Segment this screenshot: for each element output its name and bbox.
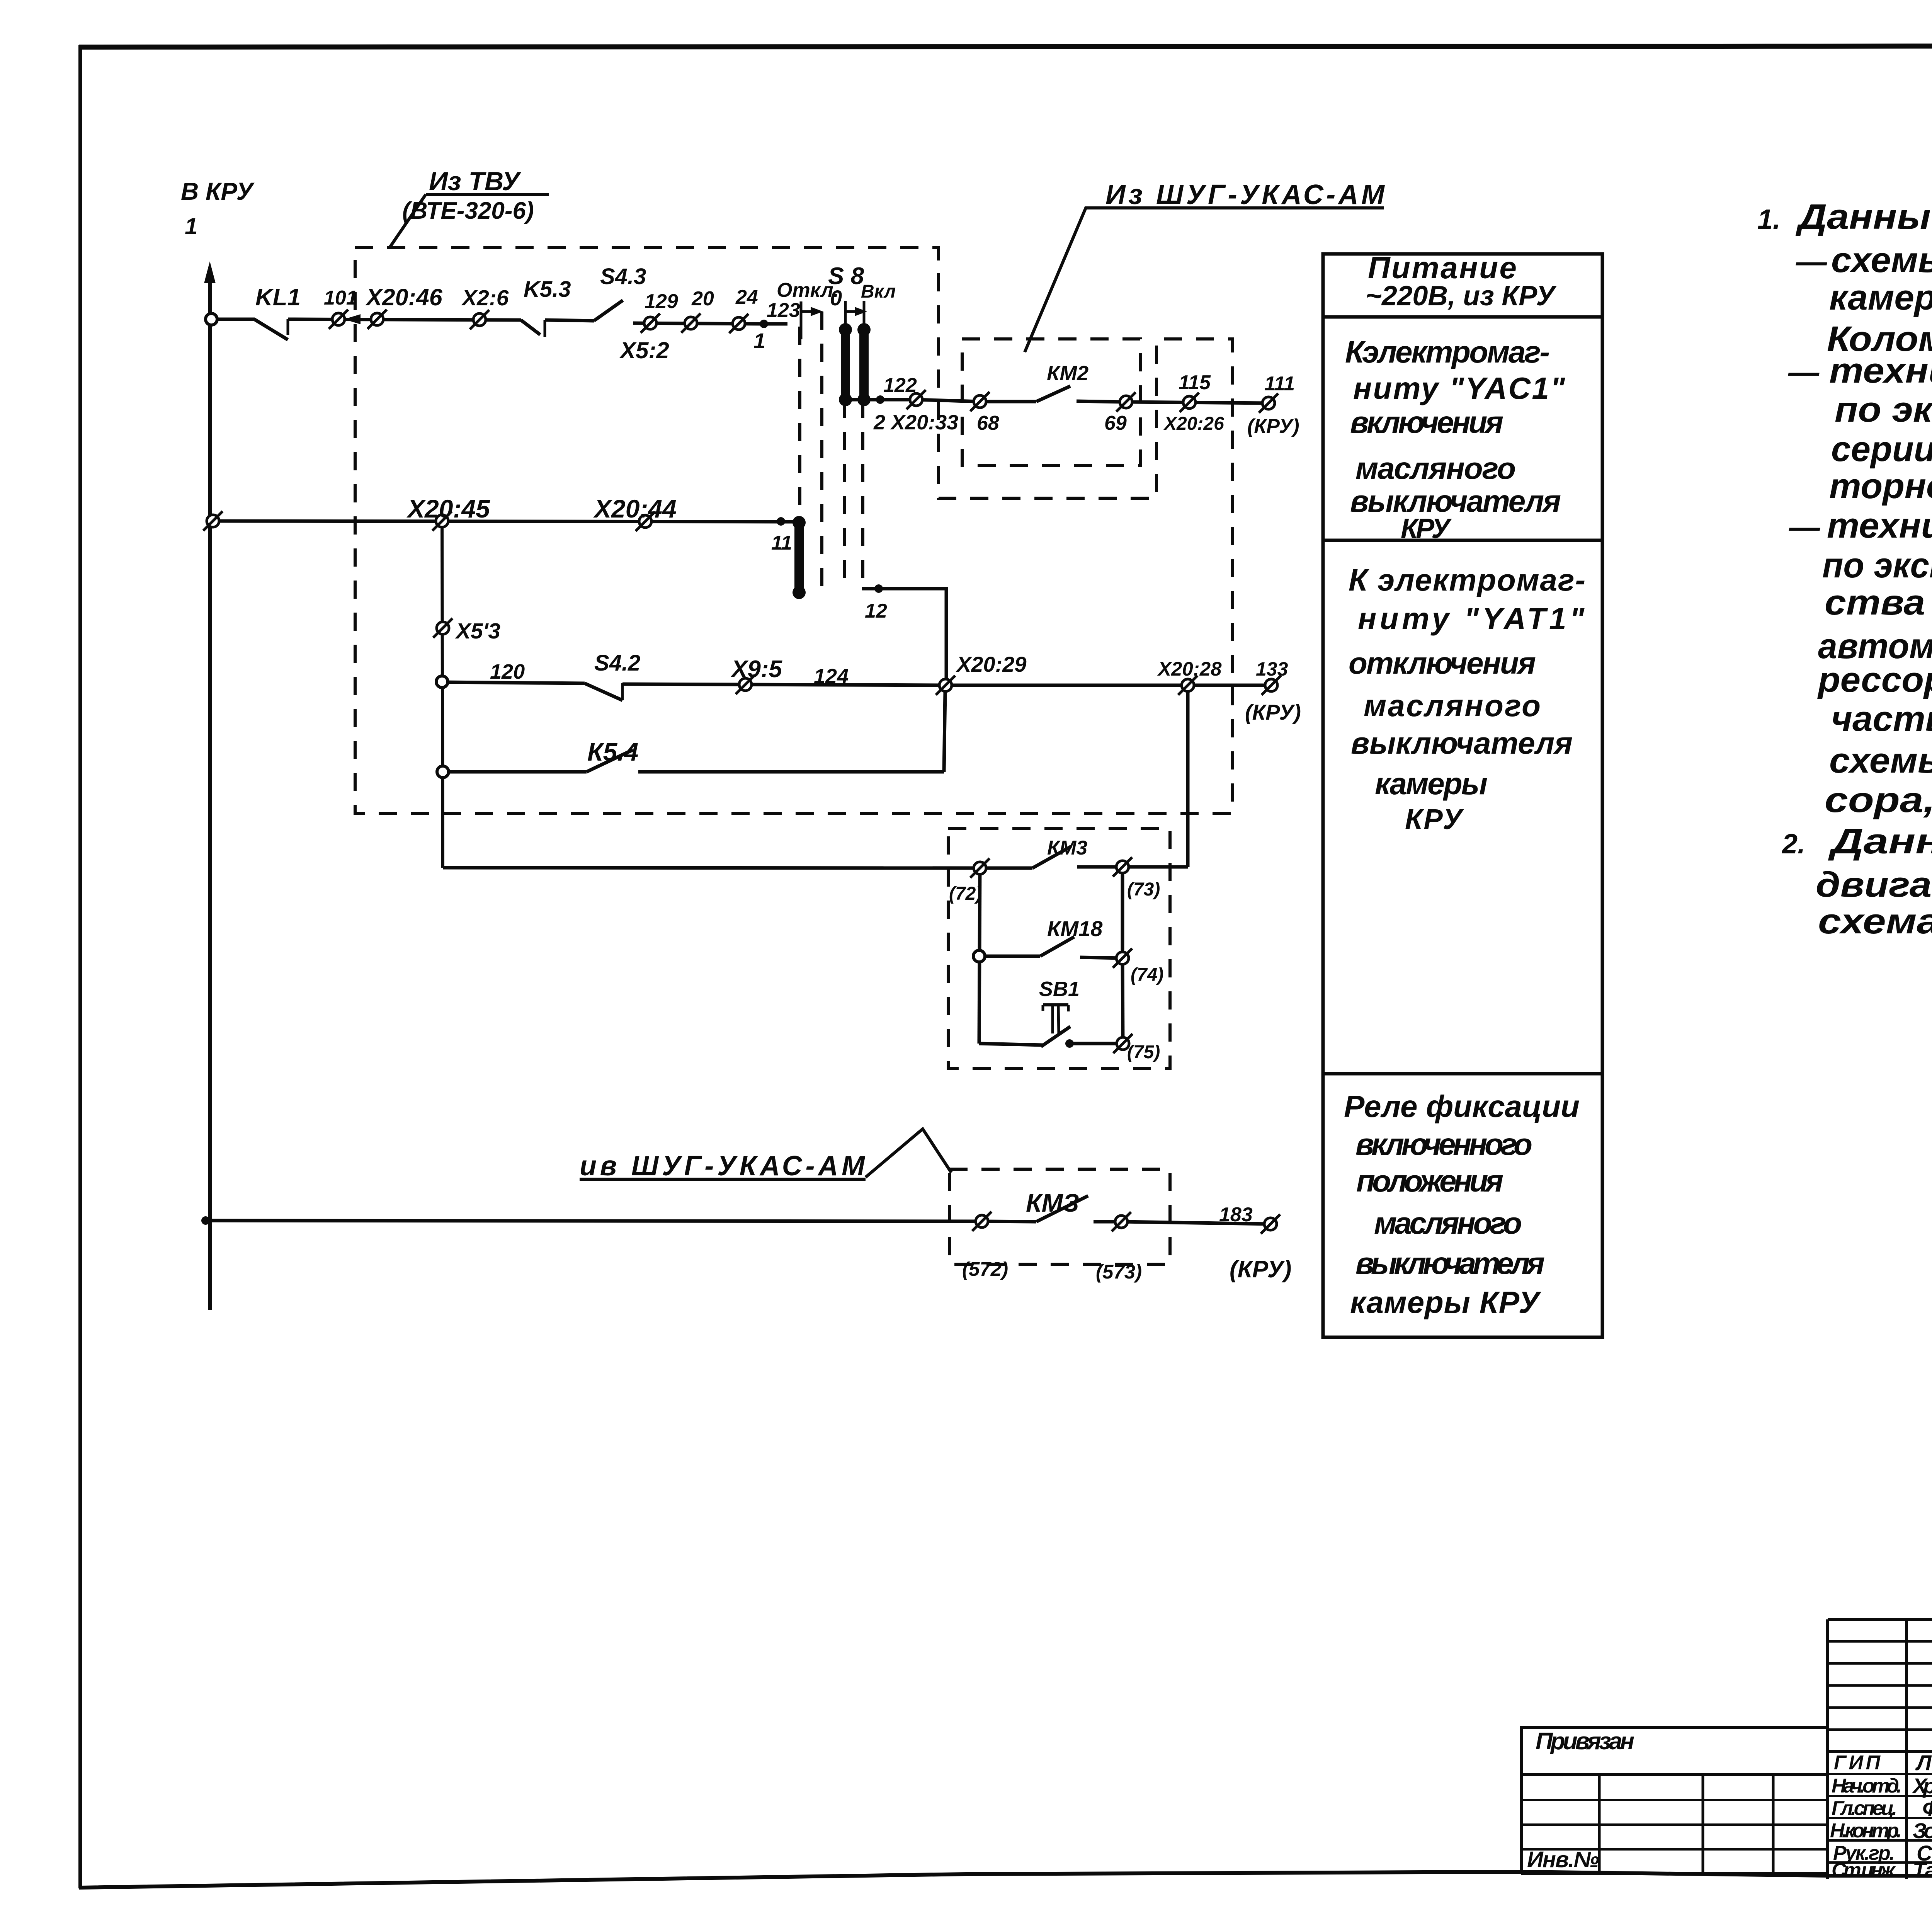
svg-text:частью электрической принцип: частью электрической принципиальной bbox=[1831, 699, 1932, 739]
svg-text:(75): (75) bbox=[1127, 1042, 1160, 1062]
svg-text:КМ18: КМ18 bbox=[1047, 916, 1103, 941]
svg-text:X20:26: X20:26 bbox=[1163, 414, 1224, 434]
svg-text:отключения: отключения bbox=[1349, 646, 1536, 680]
wire: X20:28 down to KM3 right bbox=[1186, 685, 1190, 867]
svg-text:КМ3: КМ3 bbox=[1047, 837, 1087, 859]
svg-text:(КРУ): (КРУ) bbox=[1230, 1256, 1291, 1283]
table header separator bbox=[1323, 315, 1602, 319]
contact KM2 bbox=[980, 400, 1036, 403]
S8 stem of bar B bbox=[863, 301, 866, 329]
dashed box KM2 bbox=[962, 339, 1140, 465]
title block signature grid verticals bbox=[1826, 1619, 1829, 1879]
svg-text:K5.3: K5.3 bbox=[524, 277, 571, 302]
S8 contact bar B bbox=[857, 323, 871, 406]
svg-text:выключателя: выключателя bbox=[1351, 726, 1573, 760]
svg-text:KL1: KL1 bbox=[255, 284, 301, 311]
node: small junction before link 11 bbox=[777, 517, 785, 526]
svg-text:—: — bbox=[1789, 510, 1820, 544]
svg-text:масляного: масляного bbox=[1364, 688, 1541, 723]
terminal X20:46 bbox=[367, 310, 387, 329]
svg-text:X2:6: X2:6 bbox=[461, 286, 509, 310]
svg-text:(ВТЕ-320-6): (ВТЕ-320-6) bbox=[402, 197, 534, 224]
wire: 69 to 115 to 111 bbox=[1126, 402, 1269, 403]
svg-text:122: 122 bbox=[883, 374, 917, 397]
svg-text:Фукс: Фукс bbox=[1922, 1796, 1932, 1820]
terminal X20:28 bbox=[1178, 676, 1197, 695]
terminal (73) bbox=[1113, 857, 1132, 877]
wire: bottom rail to KM3 (572/573) bbox=[206, 1221, 982, 1221]
svg-text:1: 1 bbox=[753, 329, 765, 353]
svg-text:Кэлектромаг-: Кэлектромаг- bbox=[1345, 335, 1550, 369]
node: KM18 left tap bbox=[973, 950, 985, 962]
svg-text:(572): (572) bbox=[962, 1258, 1008, 1280]
terminal 69 bbox=[1116, 392, 1136, 412]
svg-text:выключателя: выключателя bbox=[1350, 484, 1561, 518]
svg-text:положения: положения bbox=[1356, 1164, 1503, 1198]
svg-text:камеры КМ-1-6-10 KV, чертеж: камеры КМ-1-6-10 KV, чертеж Р2288-12 bbox=[1829, 278, 1932, 317]
svg-text:2 X20:33: 2 X20:33 bbox=[873, 411, 958, 434]
svg-text:133: 133 bbox=[1256, 658, 1288, 680]
svg-text:В КРУ: В КРУ bbox=[181, 177, 255, 205]
svg-text:ства комплектные типа УКАС-: ства комплектные типа УКАС-м для bbox=[1825, 583, 1932, 622]
svg-text:X20:45: X20:45 bbox=[406, 494, 490, 523]
svg-text:включенного: включенного bbox=[1355, 1127, 1532, 1161]
svg-text:X20:29: X20:29 bbox=[956, 652, 1027, 676]
svg-text:рессорными станциями" и явля: рессорными станциями" и является bbox=[1817, 660, 1932, 700]
node: rail4 tap bbox=[437, 766, 449, 778]
svg-text:по эксплуатации ИЖКШ656463.: по эксплуатации ИЖКШ656463. 001 ТО „Устр… bbox=[1822, 546, 1932, 585]
svg-text:ГИП: ГИП bbox=[1834, 1752, 1881, 1774]
svg-text:Из ТВУ: Из ТВУ bbox=[429, 167, 522, 196]
leader Из ШУГ-УКАС-АМ (top) bbox=[1025, 208, 1384, 352]
dashed box КМ3 (572/573) bbox=[949, 1169, 1170, 1264]
table separator 2 bbox=[1323, 539, 1602, 542]
node: rail3 tap bbox=[436, 676, 448, 688]
svg-text:Таболина: Таболина bbox=[1913, 1858, 1932, 1882]
svg-text:камеры КРУ: камеры КРУ bbox=[1350, 1285, 1542, 1319]
svg-text:Леонав: Леонав bbox=[1915, 1750, 1932, 1775]
terminal 20 bbox=[681, 313, 701, 333]
svg-text:двигателя N1, для двигателе: двигателя N1, для двигателей N2... N6(4) bbox=[1816, 865, 1932, 904]
S8 position arrow Откл bbox=[801, 310, 817, 313]
terminal on rail2 at bus bbox=[203, 511, 223, 531]
svg-text:68: 68 bbox=[977, 412, 999, 434]
signature rows names bbox=[1912, 1750, 1932, 1882]
svg-text:1.: 1. bbox=[1757, 204, 1781, 235]
terminal X20:29 bbox=[936, 676, 955, 695]
terminal (572) bbox=[972, 1212, 992, 1231]
node: junction 123/1 bbox=[760, 320, 768, 328]
terminal (72) bbox=[970, 858, 990, 878]
link bar 11 bbox=[793, 516, 806, 599]
S8 position tick left bbox=[800, 301, 803, 339]
terminal 129 bbox=[641, 313, 660, 333]
terminal X20:44 bbox=[636, 512, 655, 531]
svg-text:123: 123 bbox=[767, 299, 800, 322]
svg-text:(74): (74) bbox=[1131, 965, 1163, 985]
svg-text:Гл.спец.: Гл.спец. bbox=[1832, 1797, 1897, 1820]
svg-text:Вкл: Вкл bbox=[861, 281, 896, 302]
svg-text:11: 11 bbox=[771, 532, 792, 554]
S8 stem of bar A bbox=[844, 301, 847, 329]
terminal 111 КРУ bbox=[1259, 393, 1278, 413]
svg-text:включения: включения bbox=[1350, 405, 1503, 439]
svg-text:X9:5: X9:5 bbox=[730, 656, 782, 683]
svg-text:Золотарева: Золотарева bbox=[1913, 1818, 1932, 1843]
svg-text:129: 129 bbox=[645, 290, 678, 313]
svg-text:Данная схема составлена для: Данная схема составлена для bbox=[1828, 822, 1932, 861]
svg-text:схемы электрической принципи: схемы электрической принципиальной bbox=[1831, 240, 1932, 280]
svg-text:S4.2: S4.2 bbox=[594, 650, 640, 676]
node: SB1 right junction bbox=[1065, 1039, 1074, 1048]
wire: rail 2 to KM3 vertical chain bbox=[442, 521, 443, 868]
svg-text:КРУ: КРУ bbox=[1405, 803, 1464, 835]
svg-text:К электромаг-: К электромаг- bbox=[1349, 563, 1585, 597]
terminal X9:5 bbox=[736, 675, 755, 694]
svg-text:2.: 2. bbox=[1781, 829, 1805, 860]
frame bottom border bbox=[79, 1872, 1932, 1888]
arrow: wire into dashed box at 101 bbox=[344, 314, 361, 324]
title block narrow rows bbox=[1828, 1640, 1932, 1643]
svg-text:торного завода;: торного завода; bbox=[1829, 466, 1932, 506]
title block signature rows bbox=[1828, 1773, 1932, 1775]
svg-text:69: 69 bbox=[1104, 412, 1127, 434]
svg-text:технического описания и инс: технического описания и инструкции bbox=[1829, 351, 1932, 390]
svg-text:~220В, из КРУ: ~220В, из КРУ bbox=[1366, 281, 1557, 312]
svg-text:КМ2: КМ2 bbox=[1047, 362, 1088, 385]
tick at dashed box corner bbox=[937, 247, 940, 260]
terminal 183 КРУ bbox=[1261, 1214, 1280, 1234]
terminal 122 / X20:33 bbox=[906, 390, 926, 409]
contact KM3 (upper box) bbox=[980, 867, 1032, 870]
svg-text:Ст.инж.: Ст.инж. bbox=[1832, 1859, 1898, 1881]
wire: (72) down to KM18 and SB1 bbox=[979, 868, 980, 1044]
arrow: bus to КРУ bbox=[204, 261, 216, 283]
svg-text:сора, приведенной в альбоме: сора, приведенной в альбоме N2. bbox=[1825, 780, 1932, 820]
svg-text:по эксплуатации на возбудит: по эксплуатации на возбудители bbox=[1835, 390, 1932, 429]
svg-text:Христофоров: Христофоров bbox=[1912, 1774, 1932, 1798]
svg-text:X5:2: X5:2 bbox=[619, 337, 669, 363]
svg-text:111: 111 bbox=[1264, 373, 1295, 395]
dashed box КМ3/КМ18/SB1 bbox=[948, 828, 1170, 1069]
svg-text:(73): (73) bbox=[1127, 879, 1160, 900]
svg-text:SB1: SB1 bbox=[1039, 977, 1080, 1001]
svg-text:Данный чертеж выполнен на: Данный чертеж выполнен на основании: bbox=[1795, 197, 1932, 237]
wire: left vertical bus В КРУ bbox=[208, 269, 212, 1310]
svg-text:120: 120 bbox=[490, 660, 525, 683]
svg-text:масляного: масляного bbox=[1355, 451, 1516, 485]
svg-text:ниту "YAC1": ниту "YAC1" bbox=[1353, 371, 1565, 405]
wire: 12 drop into X20:29 bbox=[862, 589, 946, 679]
terminal 24 bbox=[729, 314, 748, 333]
svg-text:12: 12 bbox=[865, 600, 887, 622]
svg-text:Реле фиксации: Реле фиксации bbox=[1344, 1089, 1580, 1124]
node: wire 12 junction bbox=[874, 584, 883, 593]
terminal 133 КРУ bbox=[1262, 676, 1281, 695]
wire: rail 2 X20:45 / X20:44 bbox=[213, 521, 799, 522]
terminal X5:3 bbox=[433, 618, 452, 638]
table separator 3 bbox=[1323, 1072, 1602, 1076]
wire: 122 into KM2 box bbox=[916, 400, 980, 402]
terminal (75) bbox=[1113, 1034, 1133, 1053]
svg-text:КРУ: КРУ bbox=[1401, 513, 1452, 544]
svg-text:Инв.№: Инв.№ bbox=[1527, 1847, 1599, 1872]
svg-text:ниту "YAT1": ниту "YAT1" bbox=[1358, 601, 1585, 636]
svg-text:101: 101 bbox=[324, 287, 357, 309]
terminal (573) bbox=[1112, 1212, 1131, 1231]
svg-text:20: 20 bbox=[691, 288, 714, 310]
wire: S8 bar bottoms to 122 bbox=[845, 398, 916, 402]
terminal X2:6 bbox=[470, 310, 489, 329]
svg-text:технического описания и инс: технического описания и инструкции bbox=[1827, 506, 1932, 545]
wire: X20:29 down to rail 4 corner bbox=[944, 692, 945, 772]
svg-text:(КРУ): (КРУ) bbox=[1245, 700, 1301, 724]
terminal 101 bbox=[329, 310, 348, 329]
wire: rail 5 into KM3 contact box bbox=[443, 868, 980, 868]
frame left border bbox=[78, 45, 82, 1888]
dashed box Из ТВУ outline bbox=[355, 247, 1233, 814]
S8 linkage dashed line L1 bbox=[798, 327, 801, 520]
svg-text:0: 0 bbox=[830, 286, 842, 310]
svg-text:(573): (573) bbox=[1096, 1261, 1142, 1283]
svg-text:Привязан: Привязан bbox=[1536, 1728, 1634, 1755]
svg-text:Нач.отд.: Нач.отд. bbox=[1832, 1775, 1902, 1797]
svg-text:—: — bbox=[1788, 355, 1820, 389]
svg-text:КМЗ: КМЗ bbox=[1026, 1188, 1079, 1217]
leader Из ТВУ bbox=[426, 193, 549, 196]
svg-text:К5.4: К5.4 bbox=[587, 737, 638, 766]
svg-text:X20:44: X20:44 bbox=[593, 494, 677, 523]
svg-text:183: 183 bbox=[1219, 1204, 1253, 1226]
svg-text:выключателя: выключателя bbox=[1355, 1246, 1545, 1280]
push-button SB1 bbox=[979, 1044, 1043, 1045]
contact KM18 bbox=[979, 955, 1040, 958]
contact KM3 (bottom box) bbox=[982, 1221, 1036, 1222]
svg-text:X20:28: X20:28 bbox=[1157, 658, 1222, 680]
svg-text:схема аналогична.: схема аналогична. bbox=[1818, 902, 1932, 941]
svg-text:X5'3: X5'3 bbox=[455, 619, 500, 644]
svg-text:(КРУ): (КРУ) bbox=[1247, 415, 1299, 438]
terminal 68 bbox=[970, 392, 990, 411]
svg-text:серии ВТЕ-320-6 Лысьвенского: серии ВТЕ-320-6 Лысьвенского турбогенера… bbox=[1831, 429, 1932, 469]
svg-text:124: 124 bbox=[814, 665, 849, 688]
terminal (74) bbox=[1113, 948, 1132, 968]
node: 122 junction bbox=[876, 395, 884, 404]
node: bus / rail1 junction bbox=[206, 313, 217, 325]
S8 position arrow Вкл bbox=[846, 310, 861, 313]
svg-text:схемы управления двигателем: схемы управления двигателем компрес- bbox=[1829, 741, 1932, 780]
table outer box bbox=[1323, 254, 1602, 1337]
svg-text:—: — bbox=[1796, 244, 1827, 279]
svg-text:115: 115 bbox=[1179, 371, 1211, 394]
svg-text:S4.3: S4.3 bbox=[600, 264, 646, 289]
wire: (73)-(74)-(75) right column bbox=[1121, 867, 1124, 958]
svg-text:камеры: камеры bbox=[1375, 766, 1488, 801]
title block top line bbox=[1828, 1618, 1932, 1621]
leader из ШУГ-УКАС-АМ (bottom) bbox=[580, 1178, 866, 1181]
strip body rows bbox=[1520, 1774, 1523, 1874]
S8 linkage dashed line L3 bbox=[843, 400, 846, 589]
svg-text:ив ШУГ-УКАС-АМ: ив ШУГ-УКАС-АМ bbox=[580, 1151, 866, 1182]
S8 linkage dashed line L4 bbox=[861, 400, 864, 585]
wire: (573) to 183 exit bbox=[1121, 1222, 1270, 1224]
svg-text:Из ШУГ-УКАС-АМ: Из ШУГ-УКАС-АМ bbox=[1105, 179, 1385, 210]
svg-text:24: 24 bbox=[735, 286, 758, 308]
strip column dividers bbox=[1598, 1774, 1601, 1874]
S8 linkage dashed line L2 bbox=[820, 312, 823, 591]
svg-text:Н.контр.: Н.контр. bbox=[1830, 1820, 1902, 1842]
node: bus / bottom rail junction bbox=[201, 1216, 210, 1225]
frame top border bbox=[79, 46, 1932, 47]
terminal 115 bbox=[1180, 393, 1199, 412]
wire: rail 1 (bus to S8) bbox=[216, 319, 288, 340]
signature rows roles bbox=[1830, 1752, 1902, 1881]
svg-text:масляного: масляного bbox=[1374, 1206, 1522, 1240]
svg-text:(72): (72) bbox=[949, 884, 982, 904]
wire: rail 3 (120 / S4.2 / 124) bbox=[442, 682, 585, 683]
svg-text:1: 1 bbox=[185, 213, 197, 239]
wire: rail 4 (K5.4) bbox=[443, 770, 587, 774]
S8 contact bar A bbox=[839, 323, 852, 406]
svg-text:X20:46: X20:46 bbox=[365, 284, 443, 310]
strip header box bbox=[1521, 1728, 1828, 1774]
terminal X20:45 bbox=[432, 511, 452, 531]
